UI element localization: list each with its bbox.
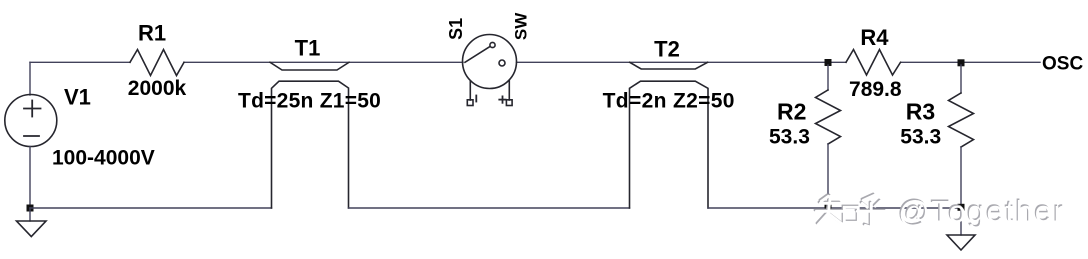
resistor R1 [130,50,184,76]
switch S1 minus mark [475,96,477,102]
wire bottom rail C [708,207,961,209]
node junction dot R2 bottom [825,204,832,211]
wire V1 top lead [29,62,31,95]
switch S1 pole contact [499,60,505,66]
switch S1 control pin plus lead [508,80,510,100]
wire switch to R4 junction [517,61,847,63]
svg-text:@Together: @Together [898,194,1065,229]
wire bottom rail A [30,207,272,209]
resistor R3 [960,65,962,93]
switch S1 body circle [463,35,517,89]
resistor R2 [827,65,829,90]
V1 minus mark [24,135,39,137]
node junction dot R3 top [958,59,965,66]
transmission line T1 [270,62,349,208]
switch S1 throw contact [490,42,495,47]
V1 plus mark [24,101,41,117]
switch S1 lever [465,47,490,63]
switch S1 [463,35,517,106]
transmission line T2 [630,62,709,208]
wire R4 to OSC [901,61,1040,63]
voltage source V1 [5,95,57,147]
ground right [960,208,962,235]
resistor R4 [846,50,901,76]
node junction dot V1-gnd [27,205,34,212]
switch S1 plus mark [499,99,505,101]
wire bottom rail B [349,207,630,209]
node junction dot R3 bottom [958,204,965,211]
node junction dot R2 top [825,59,832,66]
wire V1 bottom lead [29,147,31,209]
ground left [29,208,31,221]
wire top-left from corner to R1 [30,61,130,63]
wire R1 to switch [184,61,463,63]
switch S1 control pin minus lead [469,81,471,100]
